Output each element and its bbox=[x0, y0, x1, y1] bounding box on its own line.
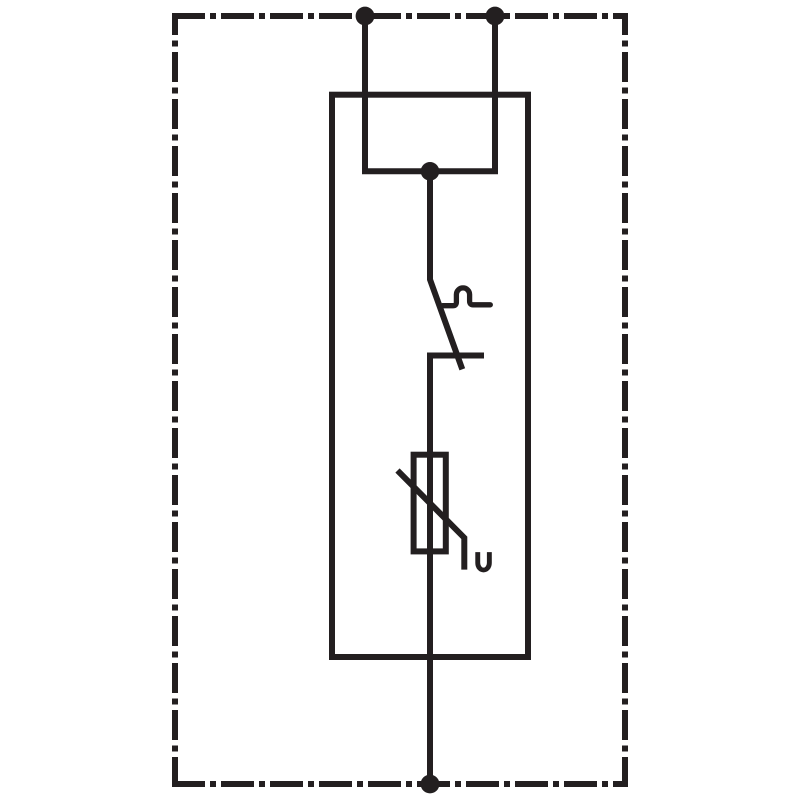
enclosure border bottom (dash-dot) bbox=[172, 781, 628, 787]
thermal element omega bbox=[443, 288, 491, 306]
label U bbox=[475, 552, 492, 572]
terminal top right bbox=[486, 7, 505, 26]
enclosure border top (dash-dot) bbox=[172, 13, 628, 19]
wire right input bbox=[492, 16, 498, 171]
wire center with disconnector blade bbox=[430, 171, 462, 369]
wire bus bar bbox=[362, 168, 498, 174]
terminal bottom bbox=[421, 775, 440, 794]
junction node bbox=[421, 162, 440, 181]
enclosure border right (dash-dot) bbox=[622, 13, 628, 787]
wire lower contact and output bbox=[430, 356, 484, 785]
varistor strike line bbox=[398, 471, 465, 570]
varistor body bbox=[414, 455, 446, 552]
wire left input bbox=[362, 16, 368, 171]
device box bbox=[332, 95, 528, 657]
enclosure border left (dash-dot) bbox=[172, 13, 178, 787]
terminal top left bbox=[356, 7, 375, 26]
